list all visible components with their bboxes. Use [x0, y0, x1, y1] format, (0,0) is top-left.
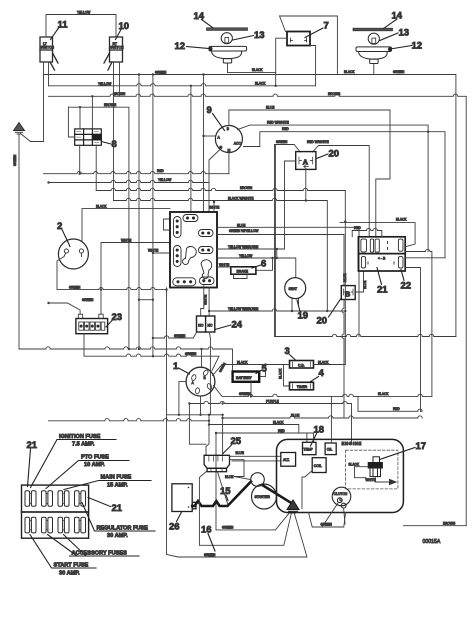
- wire relay top-left pin: [79, 107, 81, 129]
- svg-text:12: 12: [412, 41, 423, 52]
- wire brake bottom loop: [234, 274, 248, 278]
- wire relay left feed: [68, 107, 74, 137]
- svg-text:BLACK: BLACK: [252, 68, 263, 72]
- svg-text:BRAKE: BRAKE: [237, 270, 249, 274]
- wire relay bottom pin left: [79, 145, 81, 173]
- svg-text:GREEN: GREEN: [393, 70, 405, 74]
- relay 24: [197, 316, 215, 332]
- svg-text:BLUE: BLUE: [291, 414, 299, 418]
- wire 24 left pin jog: [201, 286, 204, 316]
- engine dashed enclosure: [346, 450, 398, 489]
- svg-text:7.5 AMP.: 7.5 AMP.: [72, 442, 95, 448]
- svg-text:30 AMP.: 30 AMP.: [59, 571, 80, 577]
- wire green row y349: [19, 347, 233, 372]
- wire box7 left pin down-loop: [276, 38, 316, 86]
- svg-text:21: 21: [377, 285, 388, 296]
- wire black hourmeter y208: [82, 209, 170, 242]
- wire red y433 to TEMP: [216, 433, 314, 442]
- fuel solenoid 17: [368, 457, 382, 477]
- wire black y424.5 to TEMP: [209, 425, 307, 443]
- hour meter 2: [58, 239, 88, 269]
- svg-text:18: 18: [314, 425, 325, 436]
- wire row y420.8 from left: [49, 419, 210, 421]
- svg-text:SEAT: SEAT: [289, 287, 298, 291]
- wire white block left jog: [153, 252, 170, 254]
- svg-text:WHITE: WHITE: [219, 263, 229, 267]
- svg-text:BLACK: BLACK: [255, 81, 266, 85]
- wire purple jog into 25: [189, 415, 206, 444]
- wire sw11 stub B: [48, 62, 50, 86]
- wire green into module A: [275, 145, 301, 153]
- fuse block 21: [22, 485, 89, 538]
- wire headlight-left stem: [227, 63, 229, 73]
- headlight 12 left: lens bar 14: [207, 28, 248, 31]
- svg-text:1: 1: [173, 361, 179, 372]
- svg-text:YELLOW: YELLOW: [77, 10, 90, 14]
- svg-text:GREEN W/YELLOW: GREEN W/YELLOW: [229, 229, 258, 233]
- wire sw10 stub B: [119, 62, 121, 96]
- wire PTO right diag to black: [213, 365, 223, 376]
- svg-text:23: 23: [112, 312, 123, 323]
- wire PTO top feed: [201, 349, 203, 367]
- svg-text:ALT.: ALT.: [283, 458, 290, 462]
- svg-text:GREEN: GREEN: [69, 285, 81, 289]
- svg-text:GREEN: GREEN: [13, 154, 17, 166]
- svg-text:RED: RED: [278, 429, 285, 433]
- wire mid rail x139: [138, 75, 140, 350]
- svg-text:YELLOW: YELLOW: [98, 82, 111, 86]
- svg-text:RED: RED: [282, 127, 289, 131]
- wire white block exit y267: [217, 266, 231, 268]
- wire battery sense jog: [259, 365, 265, 377]
- svg-text:BLUE: BLUE: [363, 281, 367, 289]
- wire blue jog right of 25: [230, 460, 251, 480]
- svg-text:BROWN: BROWN: [240, 186, 253, 190]
- battery cable thick 26 to starter: [192, 482, 251, 507]
- svg-text:M: M: [228, 149, 231, 153]
- wire green drop to ground: [21, 75, 44, 142]
- headlight 12 right: lens bar 14: [353, 28, 393, 31]
- wire block left jog2: [164, 219, 171, 230]
- wire mid rail x152.9: [152, 75, 154, 357]
- wire black-w-white y200: [114, 198, 328, 311]
- svg-text:BLACK: BLACK: [96, 205, 107, 209]
- main harness connector block: [170, 212, 217, 288]
- main ground: [287, 500, 299, 513]
- wire relay bottom pin right: [95, 145, 97, 190]
- svg-text:13: 13: [399, 28, 410, 39]
- fuses (8): [25, 491, 86, 533]
- wire yellow/black row y85.8: [49, 84, 316, 86]
- wire regulator right pin jog1: [405, 249, 432, 396]
- svg-text:BLACK: BLACK: [279, 368, 283, 379]
- svg-text:GREEN: GREEN: [276, 140, 288, 144]
- svg-text:30 AMP.: 30 AMP.: [107, 533, 128, 539]
- svg-text:B: B: [345, 290, 351, 299]
- wire sw10 stub A: [113, 62, 115, 201]
- key switch 9: [215, 126, 242, 153]
- wire regulator right pin jog2: [405, 257, 445, 259]
- svg-text:BROWN: BROWN: [113, 92, 126, 96]
- svg-text:WHITE: WHITE: [366, 478, 376, 482]
- wire black regulator right top: [340, 223, 415, 247]
- wire black 17 zigzag: [355, 467, 369, 478]
- wire PTO bottom drop: [200, 396, 202, 415]
- wire red loop above regulator: [352, 228, 382, 237]
- svg-text:3: 3: [285, 346, 290, 357]
- wire blue y418: [223, 416, 423, 418]
- wire green bottom inner from 25: [199, 471, 291, 545]
- svg-text:YELLOW: YELLOW: [158, 178, 171, 182]
- wire green long y396: [214, 386, 432, 397]
- coil: [312, 458, 326, 473]
- wire PTO left loop: [179, 382, 186, 415]
- oil sender: [325, 443, 336, 455]
- svg-text:GREEN: GREEN: [82, 298, 94, 302]
- svg-text:RED W/WHITE: RED W/WHITE: [307, 140, 329, 144]
- svg-text:8: 8: [112, 139, 117, 150]
- wire link rails y299.7: [139, 299, 153, 301]
- bulb 13 right: [368, 33, 379, 44]
- svg-text:BLUE: BLUE: [236, 451, 244, 455]
- svg-text:GREEN: GREEN: [239, 392, 251, 396]
- svg-text:19: 19: [298, 311, 309, 322]
- engine outline: [277, 439, 404, 512]
- wire green-w-yellow exit y234.5: [217, 235, 344, 286]
- connector 23: [76, 319, 108, 334]
- wire white below block: [208, 288, 210, 317]
- wire v-rail 275 down: [274, 146, 276, 337]
- wire green to 24: [153, 332, 197, 338]
- svg-text:BLACK: BLACK: [344, 70, 355, 74]
- voltage regulator 21/22: [358, 237, 405, 271]
- wire 24 bottom pins: [209, 332, 210, 415]
- wire red bundle y174: [44, 171, 229, 173]
- svg-text:+ - B: + - B: [378, 257, 386, 261]
- starter motor: [252, 484, 277, 509]
- svg-text:NC: NC: [208, 324, 213, 328]
- wire red y411: [358, 409, 422, 411]
- wire headlight-right stem: [373, 64, 375, 75]
- svg-text:4: 4: [319, 368, 325, 379]
- wire key G jog: [209, 148, 222, 213]
- svg-text:CLUTCH: CLUTCH: [334, 492, 348, 496]
- starter solenoid post: [251, 473, 265, 487]
- wire brown long y96: [49, 94, 467, 526]
- svg-text:13: 13: [254, 30, 265, 41]
- svg-text:RED: RED: [157, 169, 164, 173]
- relay box 7: [287, 32, 310, 46]
- svg-text:BLACK: BLACK: [318, 360, 329, 364]
- relay module B (20): [341, 286, 355, 300]
- svg-text:BLACK W/WHITE: BLACK W/WHITE: [228, 197, 254, 201]
- cable starter to ground: [263, 486, 291, 503]
- svg-text:GREEN: GREEN: [155, 71, 167, 75]
- wire white stub into block top: [213, 202, 215, 212]
- svg-text:GREEN: GREEN: [222, 526, 234, 530]
- svg-text:RED: RED: [393, 407, 400, 411]
- svg-text:BATTERY: BATTERY: [236, 376, 252, 380]
- connector 25: [204, 455, 229, 471]
- svg-text:TIMER: TIMER: [297, 385, 308, 389]
- wire module B bottom down: [342, 300, 344, 419]
- wire brown bundle y190: [96, 188, 345, 190]
- clutch: [332, 487, 351, 508]
- svg-text:GREEN: GREEN: [185, 352, 197, 356]
- wire CB to timer left link: [284, 365, 290, 387]
- brake switch 6: [231, 267, 256, 274]
- svg-text:YELLOW W/BROWN: YELLOW W/BROWN: [228, 307, 259, 311]
- svg-text:12: 12: [175, 41, 186, 52]
- svg-text:BLACK: BLACK: [273, 420, 284, 424]
- svg-text:BLACK: BLACK: [349, 463, 360, 467]
- wire 25 pin verticals: [206, 415, 223, 456]
- svg-text:20: 20: [317, 316, 328, 327]
- wire red-w-white module A right to regulator: [313, 146, 370, 237]
- wire yellow-w-brown row y311: [209, 309, 345, 311]
- ground symbol top-left: [14, 123, 25, 135]
- svg-text:25: 25: [231, 436, 242, 447]
- wire clutch left lead: [322, 502, 345, 527]
- wire green loop tall left: [166, 288, 168, 555]
- alternator: [281, 453, 296, 467]
- wire 23 left pin from left rail: [49, 303, 81, 314]
- svg-text:24: 24: [232, 320, 243, 331]
- wire module B right jog to regulator: [355, 271, 363, 292]
- wire red top from key switch: [244, 132, 446, 258]
- svg-text:BROWN: BROWN: [104, 103, 117, 107]
- wire white jog to block: [101, 243, 170, 315]
- wire purple drop: [188, 404, 190, 415]
- svg-text:RED W/WHITE: RED W/WHITE: [267, 121, 289, 125]
- svg-text:BLUE: BLUE: [237, 223, 245, 227]
- wire brown rail x345: [344, 191, 346, 365]
- wire rail x190.9 into block: [190, 86, 192, 212]
- headlight 12 left body: [209, 46, 247, 63]
- svg-text:BLACK: BLACK: [378, 392, 389, 396]
- svg-text:YELLOW: YELLOW: [239, 254, 252, 258]
- wire battery bottom down: [250, 382, 252, 397]
- svg-text:21: 21: [112, 503, 123, 514]
- wire red-w-white from key: [238, 125, 429, 251]
- wire yellow between switches: [46, 15, 116, 38]
- svg-text:16: 16: [201, 525, 212, 536]
- svg-text:15 AMP.: 15 AMP.: [107, 483, 128, 489]
- svg-text:NO: NO: [198, 324, 203, 328]
- svg-text:00015A: 00015A: [423, 539, 441, 545]
- svg-text:7: 7: [324, 21, 329, 32]
- wire black PTO to CB: [222, 364, 290, 366]
- svg-text:PURPLE: PURPLE: [266, 399, 279, 403]
- svg-text:TEMP: TEMP: [303, 448, 313, 452]
- svg-text:2: 2: [57, 221, 62, 232]
- battery 5: [233, 372, 260, 382]
- svg-text:C.B.: C.B.: [298, 363, 305, 367]
- svg-text:COIL: COIL: [314, 464, 322, 468]
- svg-text:WHITE: WHITE: [209, 205, 219, 209]
- svg-text:6: 6: [261, 259, 266, 270]
- svg-text:OIL: OIL: [327, 447, 333, 451]
- wire long mid horizontal y336.5: [275, 334, 456, 336]
- battery cable thick 25 to ground: [218, 472, 228, 504]
- wire blue exit y227: [217, 227, 359, 336]
- wire red y411 left link: [357, 396, 359, 411]
- wire link ywb to yellow: [276, 249, 278, 258]
- svg-text:BLUE: BLUE: [266, 106, 274, 110]
- wire black headlight-left to loop: [228, 72, 276, 74]
- svg-text:14: 14: [392, 11, 403, 22]
- wire row y414.8: [167, 414, 223, 416]
- interlock switch 10 (RT): [104, 37, 123, 70]
- svg-text:O: O: [340, 498, 343, 502]
- wire black CB right: [314, 364, 346, 366]
- svg-text:YELLOW W/BROWN: YELLOW W/BROWN: [228, 245, 259, 249]
- svg-text:21: 21: [27, 440, 38, 451]
- svg-text:WHITE: WHITE: [121, 238, 131, 242]
- wire key A jog: [204, 135, 216, 137]
- wire yellow-w-brown exit y249: [217, 161, 296, 249]
- wire yellow bundle y182: [49, 180, 210, 182]
- interlock switch 11 (LT): [40, 37, 58, 70]
- wire brake right jog: [256, 258, 273, 270]
- svg-text:BROWN: BROWN: [443, 522, 456, 526]
- svg-text:22: 22: [401, 281, 412, 292]
- timer module 4: [290, 382, 314, 390]
- diode module A (20): [296, 152, 316, 170]
- svg-text:17: 17: [416, 441, 427, 452]
- wire box7 top feed: [280, 16, 338, 75]
- bulb 13 left: [221, 33, 232, 44]
- wire green rail down x274.5: [274, 145, 276, 337]
- svg-text:11: 11: [58, 20, 69, 31]
- relay module 8: [75, 129, 102, 145]
- wire blue from key B: [229, 110, 390, 237]
- svg-text:MAIN FUSE: MAIN FUSE: [101, 475, 132, 481]
- wire sw11 stub A: [43, 62, 45, 75]
- svg-text:PTO FUSE: PTO FUSE: [81, 455, 109, 461]
- PTO switch 1: [186, 367, 215, 396]
- svg-text:RED: RED: [354, 226, 361, 230]
- svg-text:ENGINE: ENGINE: [342, 441, 362, 446]
- wire green main top: [44, 75, 456, 337]
- wire green row y356: [84, 354, 219, 371]
- wire green bottom outer: [167, 512, 308, 558]
- svg-text:SWITCH: SWITCH: [110, 46, 124, 50]
- svg-text:10 AMP.: 10 AMP.: [84, 462, 105, 468]
- wire 25 to ALT (two leads): [230, 456, 281, 461]
- wire oil feed from black y396: [330, 396, 332, 443]
- svg-text:20: 20: [329, 149, 340, 160]
- wire key M stub down: [228, 153, 230, 174]
- svg-text:GREEN: GREEN: [204, 553, 216, 557]
- wire yellow exit y258 to seat: [217, 258, 296, 278]
- svg-text:5: 5: [262, 364, 268, 375]
- wire brown bottom right: [403, 525, 466, 527]
- wire green clutch y527: [309, 513, 346, 528]
- svg-text:BLUE: BLUE: [225, 475, 233, 479]
- svg-text:SWITCH: SWITCH: [41, 46, 55, 50]
- seat switch 19: [285, 278, 306, 299]
- wire green below ground: [18, 135, 20, 350]
- wire green hourmeter row: [57, 257, 167, 290]
- svg-text:ACC: ACC: [234, 142, 242, 146]
- headlight 12 right body: [356, 47, 392, 64]
- temp sender: [303, 442, 317, 454]
- wire module A bottom: [305, 169, 307, 200]
- svg-text:BLACK: BLACK: [237, 360, 248, 364]
- svg-text:BROWN: BROWN: [328, 92, 341, 96]
- solenoid box 26: [172, 484, 196, 512]
- wire purple y403.5: [189, 401, 351, 444]
- wire relay top to brown: [91, 96, 93, 129]
- svg-text:STARTER: STARTER: [255, 495, 271, 499]
- wire coil to ground: [302, 471, 312, 509]
- svg-text:9: 9: [207, 105, 212, 116]
- wire rail x203.5 into block: [203, 75, 205, 213]
- svg-text:GREEN: GREEN: [174, 334, 186, 338]
- wire white 17 to frame arrow: [375, 477, 389, 482]
- svg-text:26: 26: [169, 522, 180, 533]
- circuit breaker 3: [290, 361, 314, 369]
- wire regulator bottom-right down: [405, 268, 420, 412]
- wire rail x216 through 25 to green: [216, 433, 291, 530]
- wire 23 bottom to green row: [83, 334, 85, 357]
- svg-text:BLACK: BLACK: [396, 218, 407, 222]
- svg-text:GREEN: GREEN: [321, 522, 333, 526]
- wire brown relay y107: [68, 107, 128, 349]
